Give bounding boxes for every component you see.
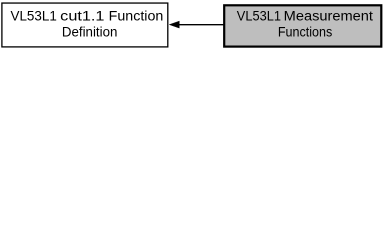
background: [0, 0, 392, 52]
svg-text:cut1.1: cut1.1: [60, 8, 104, 24]
svg-text:VL53L1: VL53L1: [11, 8, 57, 24]
svg-text:Functions: Functions: [278, 24, 332, 40]
node: VL53L1 Measurement Functions (right box, current/highlighted): [224, 5, 381, 46]
svg-text:Definition: Definition: [62, 24, 118, 40]
svg-text:Measurement: Measurement: [284, 8, 373, 24]
svg-text:Function: Function: [109, 8, 164, 24]
svg-text:VL53L1: VL53L1: [237, 8, 281, 24]
edge: arrow line from right box to left box: [179, 24, 225, 26]
node: VL53L1 cut1.1 Function Definition (left box): [2, 3, 168, 47]
edge: arrowhead pointing left: [169, 21, 179, 28]
